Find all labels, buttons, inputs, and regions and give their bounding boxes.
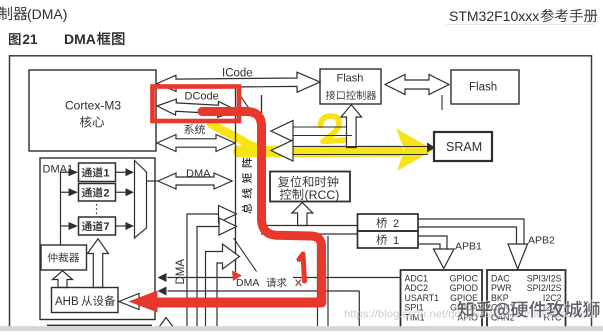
cpu Cortex-M3 box	[29, 70, 156, 151]
rcc up arrow	[292, 203, 313, 226]
svg-text:SRAM: SRAM	[446, 140, 482, 154]
sram box	[434, 132, 492, 161]
flash-if to flash double arrow	[385, 75, 449, 95]
channel feeder line	[60, 172, 62, 245]
matrix to bridges lines	[261, 225, 358, 227]
svg-text:GPIOD: GPIOD	[450, 283, 478, 293]
svg-text:GPIOC: GPIOC	[450, 274, 479, 284]
yellow digit 2	[321, 116, 352, 143]
dma channel 7 box	[79, 217, 116, 235]
dma channel 1 box	[79, 163, 116, 182]
svg-text:DAC: DAC	[491, 274, 510, 284]
flashpath shaft lines	[293, 126, 347, 128]
dma request text bg	[233, 272, 293, 288]
matrix-to-flashpath left arrowhead	[271, 121, 293, 142]
apb2 peripherals box	[401, 270, 483, 333]
system double arrow	[157, 135, 235, 152]
svg-text:STM32F10xxx: STM32F10xxx	[449, 8, 539, 24]
svg-text:ADC1: ADC1	[405, 274, 429, 284]
arbiter up arrow	[53, 271, 73, 288]
svg-text:USART1: USART1	[405, 293, 440, 303]
svg-text:ADC2: ADC2	[405, 283, 429, 293]
rcc label	[278, 176, 338, 187]
svg-text:(DMA): (DMA)	[27, 6, 67, 22]
dma channel 2 box	[79, 184, 116, 202]
mux output line	[147, 180, 159, 182]
bus-matrix bottom diagonal	[234, 238, 257, 272]
svg-text:DMA: DMA	[175, 259, 187, 285]
yellow highlight path to SRAM	[211, 124, 258, 148]
svg-text:1: 1	[393, 235, 399, 247]
channel 7 output arrow	[116, 225, 126, 227]
svg-text:Flash: Flash	[337, 73, 364, 85]
red digit 1	[299, 254, 305, 281]
ahb slave left arrowhead	[119, 294, 139, 310]
dma1 master L-arrow 2	[197, 218, 237, 326]
svg-text:DMA1: DMA1	[43, 164, 74, 176]
red arrow to AHB slave	[157, 298, 319, 308]
dma2 master L-arrow	[206, 244, 240, 326]
yellow arrowhead at SRAM	[396, 129, 434, 172]
bus-matrix label 总线矩阵	[242, 158, 252, 214]
flash box	[451, 70, 519, 104]
svg-text:AHB: AHB	[55, 296, 79, 308]
dma request line 1	[168, 277, 400, 279]
bus-matrix right edge	[261, 95, 263, 232]
svg-text:ICode: ICode	[222, 68, 253, 80]
bridge1 box	[358, 231, 419, 248]
cjk watermark	[0, 0, 1, 1]
channel dots	[96, 204, 98, 216]
svg-text:2: 2	[393, 218, 399, 230]
dma request line 1 arrowhead	[158, 273, 167, 282]
bus-matrix top diagonal	[240, 95, 264, 129]
dma request line 2 arrowhead	[158, 287, 167, 296]
bridge1 label	[376, 234, 387, 245]
apb1 arrowhead	[434, 249, 455, 269]
channel 2 input arrow	[61, 191, 69, 193]
svg-text:(RCC): (RCC)	[305, 188, 340, 202]
stub line	[441, 95, 443, 110]
apb2 lines	[418, 219, 524, 244]
svg-text:PWR: PWR	[491, 283, 512, 293]
svg-text:SPI2/I2S: SPI2/I2S	[527, 283, 562, 293]
ahb slave stub lines	[139, 297, 155, 299]
dma1 master L-arrow	[187, 206, 237, 327]
channel 2 output arrow	[116, 191, 126, 193]
channel 1 output arrow	[116, 171, 126, 173]
svg-text:SPI3/I2S: SPI3/I2S	[527, 274, 562, 284]
svg-text:2: 2	[104, 187, 110, 199]
header-left text 制器(DMA)	[0, 7, 27, 21]
bridge2 label	[376, 217, 387, 228]
page-edge gray bar	[0, 326, 603, 331]
arbiter box	[41, 245, 87, 270]
DCode double arrow	[157, 99, 237, 117]
red tick at DMA request	[232, 271, 242, 282]
flash-if up arrow	[341, 105, 362, 148]
dma2 partial arrow	[157, 318, 176, 331]
flash-interface box	[320, 69, 381, 104]
svg-text:1: 1	[104, 167, 110, 179]
bus-matrix left edge	[235, 88, 237, 272]
ICode double arrow	[157, 72, 320, 92]
caption 图21 DMA框图	[9, 33, 21, 45]
svg-text:APB2: APB2	[528, 235, 555, 247]
header rule	[446, 23, 594, 25]
dma vertical label	[175, 259, 187, 285]
apb1 peripherals box	[487, 270, 566, 333]
svg-text:DMA: DMA	[64, 31, 96, 47]
svg-text:APB1: APB1	[455, 241, 482, 253]
apb1 lines	[418, 236, 447, 249]
channel mux	[135, 161, 147, 239]
channel 1 input arrow	[61, 171, 69, 173]
sram line	[293, 146, 428, 148]
svg-text:DCode: DCode	[185, 91, 219, 103]
sram solid arrowhead	[427, 143, 435, 153]
svg-text:7: 7	[104, 221, 110, 233]
svg-text:Flash: Flash	[469, 82, 497, 94]
red small mark	[296, 280, 301, 286]
svg-text:BKP: BKP	[491, 293, 509, 303]
dma1 box	[40, 158, 155, 320]
svg-text:Cortex-M3: Cortex-M3	[65, 99, 121, 113]
matrix-to-sram left arrowhead	[271, 140, 293, 161]
arbiter label	[48, 252, 80, 262]
request verticals	[317, 236, 319, 326]
svg-text:DMA: DMA	[236, 277, 259, 289]
red box around DCode	[153, 87, 240, 122]
svg-text:21: 21	[23, 32, 39, 47]
ahb slave box	[52, 288, 119, 313]
DMA double arrow	[158, 173, 232, 189]
channel 7 input arrow	[61, 225, 69, 227]
dma request line 2	[168, 290, 360, 292]
bridge2 box	[358, 214, 419, 231]
rcc box	[270, 172, 350, 202]
red path 1 (DCode to DMA request)	[202, 112, 322, 304]
channels up arrow	[88, 239, 109, 288]
system-bus label 系统	[184, 124, 205, 134]
dma2 box top edge	[47, 324, 152, 326]
apb2 arrowhead	[508, 244, 528, 269]
